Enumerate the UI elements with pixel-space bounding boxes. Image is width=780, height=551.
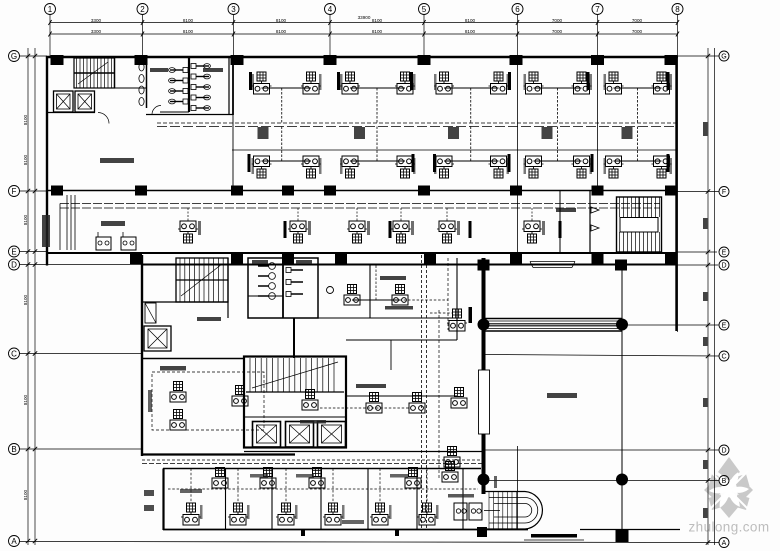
bottom unit label [295,505,298,519]
bottom band left wall [162,469,164,531]
svg-text:B: B [11,445,16,454]
fan coil corridor [437,221,457,243]
fan coil row2 bay2 left [340,156,360,178]
fan coil band upper [309,468,325,489]
small duct shaft [145,303,156,323]
wall left of stair S3 [589,190,591,253]
lobby west wall window [479,370,490,434]
svg-text:8100: 8100 [276,29,287,34]
svg-text:3: 3 [231,5,236,14]
fan coil band upper [405,468,421,489]
door stub bottom band 1 [301,529,305,536]
urinals [139,63,144,71]
bay4 label block [542,127,553,139]
svg-text:1: 1 [48,5,53,14]
row1 bay2 connection [350,87,405,89]
bay1 unit labels [252,74,255,90]
corridor branch [400,208,402,221]
bay3 label block [448,127,459,139]
row axis E right [719,320,729,330]
fan coil B1 [302,390,318,411]
riser dashed vertical main [421,255,423,528]
lobby text [547,393,577,398]
fan coil bottom room [228,503,248,525]
riser equipment block [42,215,50,247]
lobby column SW [478,474,490,486]
svg-text:zhulong.com: zhulong.com [689,520,770,535]
svg-text:8100: 8100 [23,294,28,305]
corridor branch [187,208,189,221]
spiral stair label [494,476,497,488]
core lobby wall [244,416,346,418]
B row labels [356,384,386,388]
elevator E6 [318,422,346,448]
room wall y318 [318,317,457,319]
row2 bay2 connection [350,160,405,162]
fan coil row2 bay5 left [604,156,624,178]
fan coil B2 [366,393,382,414]
svg-text:7000: 7000 [552,29,563,34]
bottom unit label [389,505,392,519]
svg-text:7000: 7000 [632,29,643,34]
row1 bay3 connection [444,87,499,89]
svg-text:6: 6 [515,5,520,14]
corridor pipes [60,203,660,205]
spiral stair [484,492,542,530]
fan coil row1 bay1 left [252,72,272,94]
wall y396 [346,395,457,397]
svg-text:8100: 8100 [276,18,287,23]
riser dashed vertical 2 [447,258,449,330]
stair S1 [74,58,115,88]
duct bar right strip [469,307,473,323]
black duct bars rows 1-2 [249,72,252,90]
fan coil row1 bay2 left [340,72,360,94]
svg-text:3300: 3300 [91,18,102,23]
grid axis 4 [325,4,336,15]
row axis B right [719,476,729,486]
svg-text:8100: 8100 [183,29,194,34]
fan coil row2 bay3 right [489,156,509,178]
svg-text:E: E [722,323,727,330]
svg-text:G: G [11,52,17,61]
fan coil row1 bay1 right [301,72,321,94]
left dimension lines [27,48,29,545]
toilet labels [150,68,168,72]
svg-text:3300: 3300 [91,29,102,34]
fan coil M2 [170,410,186,431]
corner AHU pair [454,503,467,520]
fan coil corridor [288,221,308,243]
riser dashed vertical 3 [438,310,440,480]
svg-text:A: A [11,537,17,546]
fan coil R4 [442,462,458,483]
bottom unit label [200,505,203,519]
svg-text:E: E [11,247,16,256]
corridor unit label [542,221,545,235]
band horizontal pipe dashed [168,488,478,490]
corridor branch [356,208,358,221]
svg-text:F: F [722,189,726,196]
wall row D [142,263,677,265]
wall x457 [456,258,458,340]
grid axis 7 [592,4,603,15]
bottom room drop dashed [190,469,192,504]
top dimension lines [50,22,678,24]
bottom room drop dashed [285,469,287,504]
row axis D right [719,445,729,455]
fan coil bottom room [417,503,437,525]
branch dashed B-row [320,407,410,409]
branch dashed roomA [365,299,448,301]
double door S3 [591,207,599,213]
AHU box [96,237,111,250]
svg-text:8100: 8100 [23,394,28,405]
fan coil row2 bay1 left [252,156,272,178]
svg-text:E: E [722,250,727,257]
wall row F [47,190,677,192]
reception text [100,158,134,163]
svg-text:F: F [12,187,17,196]
corridor2 dashed [142,459,482,461]
bottom room drop dashed [237,469,239,504]
wall below elevators [47,112,95,114]
small circle fixture [327,287,334,294]
fan coil row1 bay4 right [572,72,592,94]
fan coil M1 [170,382,186,403]
machine room bottom wall [141,453,295,455]
fan coil row2 bay3 left [434,156,454,178]
fan coil room A1 [344,285,360,306]
fan coil row1 bay2 right [395,72,415,94]
svg-text:D: D [721,448,726,455]
small room wall S3 [559,190,561,253]
grid axis 6 [512,4,523,15]
corridor unit label [411,221,414,235]
fan coil bottom room [370,503,390,525]
corridor unit label [457,221,460,235]
toilet T1 walls [146,56,148,108]
row axis F left [9,186,20,197]
fan coil row2 bay4 left [524,156,544,178]
row axis E left [9,246,20,257]
bay3 unit labels [434,74,437,90]
lobby stair wall segment [517,446,519,530]
svg-text:8100: 8100 [372,18,383,23]
toilet T2 labels [252,260,268,264]
lobby column SE [616,474,628,486]
wall x228 [227,258,229,318]
row1 bay4 connection [534,87,582,89]
svg-text:7: 7 [595,5,600,14]
corridor unit label [367,221,370,235]
fan coil bottom room [181,503,201,525]
door stub bottom band 2 [395,529,399,536]
elevator E3 [144,326,171,351]
machine room text2 [148,390,152,412]
column bottom 2 [616,530,629,542]
toilet fixtures [183,68,188,73]
svg-text:8100: 8100 [372,29,383,34]
svg-text:33900: 33900 [358,15,371,20]
top dimension ticks [48,20,51,25]
partition wall grid 6 [517,56,519,253]
corridor branch [446,208,448,221]
row axis G right [719,51,729,61]
columns row E [130,252,142,264]
fan coil row1 bay3 left [434,72,454,94]
grid axis 1 [45,4,56,15]
lobby beam [484,318,622,320]
svg-text:2: 2 [140,5,145,14]
fan coil M3 [232,386,248,407]
branch dashed R1 [430,312,452,314]
stair core walls [244,357,346,448]
right dimension lines [707,48,709,545]
svg-text:A: A [722,540,727,547]
bay5 unit labels [604,74,607,90]
bottom unit label [436,505,439,519]
column bottom 1 [477,527,487,537]
lobby column NE [616,319,628,331]
left riser pipes [66,195,68,250]
fan coil corridor [347,221,367,243]
corridor room label [556,208,576,212]
svg-text:8100: 8100 [183,18,194,23]
wall x391 [390,340,392,370]
row lines right [678,55,720,57]
elevator E4 [253,422,281,448]
fan coil row2 bay5 right [652,156,672,178]
room A label [380,276,406,280]
fan coil row1 bay5 left [604,72,624,94]
wall below toilet right [232,115,234,190]
lobby north door canopy [530,261,575,263]
corridor machine room text [101,221,125,226]
row2 bay4 connection [534,160,582,162]
svg-text:8100: 8100 [23,154,28,165]
room label above elevators [197,317,221,321]
row2 bay3 connection [444,160,499,162]
row axis C right [719,351,729,361]
corridor branch [297,208,299,221]
fan coil bottom room [323,503,343,525]
fan coil row2 bay4 right [572,156,592,178]
outer wall top [46,56,678,58]
row axis C left [9,348,20,359]
grid axis 2 [137,4,148,15]
corridor unit label [308,221,311,235]
fan coil R2 [451,388,467,409]
bay4 unit labels [524,74,527,90]
bay1 label block [258,127,269,139]
grid 8 wall edge continuation [677,56,679,332]
svg-text:G: G [721,54,726,61]
machine room text [160,366,186,371]
lobby west wall upper [482,258,486,370]
svg-text:D: D [721,263,726,270]
wall y358 [142,358,244,360]
bottom room drop dashed [379,469,381,504]
lower wing left wall [141,255,143,456]
fan coil corridor [391,221,411,243]
wall x294 [293,318,295,358]
svg-text:7000: 7000 [632,18,643,23]
fan coil row1 bay3 right [489,72,509,94]
svg-text:5: 5 [422,5,427,14]
svg-text:8100: 8100 [23,114,28,125]
bottom unit label [247,505,250,519]
row axis D right [719,260,729,270]
row axis F right [719,187,729,197]
row axis A left [9,536,20,547]
bay2 label block [354,127,365,139]
bottom outer wall [163,529,528,531]
toilet door arc [152,106,161,115]
watermark logo pinwheel [704,457,753,518]
corridor bars [284,221,287,238]
wall y340 segment [346,339,457,341]
svg-text:7000: 7000 [552,18,563,23]
glazing line row2 [232,149,677,151]
fan coil row1 bay5 right [652,72,672,94]
toilet T2 fixtures [269,263,276,270]
bay5 label block [622,127,633,139]
grid axis 3 [228,4,239,15]
column D-wall west [478,260,490,271]
bottom outer wall right part [580,529,680,531]
bottom band top wall [163,468,481,470]
lobby west wall lower [482,434,486,494]
row axis B left [9,444,20,455]
lobby column NW [478,319,490,331]
grid axis 5 [419,4,430,15]
band labels [180,489,202,493]
room wall x370 [369,264,371,318]
toilet T2 walls [248,258,318,318]
entrance mat [531,534,577,538]
stair S4 [249,358,251,392]
svg-text:8: 8 [675,5,680,14]
fan coil corridor [522,221,542,243]
svg-text:8100: 8100 [465,29,476,34]
row axis A right [719,538,729,548]
svg-text:C: C [721,354,726,361]
svg-text:8100: 8100 [23,489,28,500]
row2 bay5 connection [614,160,662,162]
room A connection [352,299,400,301]
fan coil row2 bay2 right [395,156,415,178]
left small equipment [144,490,154,496]
grid axis 8 [672,4,683,15]
corner AHU label [448,494,474,498]
wall row E [47,252,677,254]
svg-text:B: B [722,478,727,485]
svg-text:D: D [11,260,17,269]
fan coil band upper [212,468,228,489]
svg-text:C: C [11,349,17,358]
reception door arc [98,113,109,124]
column D-wall east [615,260,627,271]
fan coil R1 [447,309,467,331]
columns row G [51,55,64,65]
fan coil room A2 [392,285,408,306]
elevator E1 [54,91,74,112]
bottom unit label [342,505,345,519]
row2 bay1 connection [262,160,312,162]
row1 bay5 connection [614,87,662,89]
bay2 unit labels [340,74,343,90]
row lines left [20,55,48,57]
corridor duct dashed [157,122,676,124]
stair S3 [617,197,662,252]
corridor branch [531,208,533,221]
columns row F [51,186,63,196]
wall y452 [244,451,484,453]
fan coil R3 [444,447,460,468]
bottom room drop dashed [332,469,334,504]
elevator E2 [75,91,95,112]
machine room loop dashed [152,372,264,430]
fan coil bottom room [276,503,296,525]
right dimension ticks [703,122,708,136]
fan coil corridor [178,221,198,243]
fan coil band upper [260,468,276,489]
outer wall left [46,56,48,266]
row1 bay1 connection [262,87,312,89]
svg-text:4: 4 [328,5,333,14]
bottom room drop dashed [426,469,428,504]
lobby east line [621,265,623,530]
fan coil B3 [409,393,425,414]
AHU box [121,237,136,250]
corridor unit label [198,221,201,235]
row axis E right [719,247,729,257]
stair S2 [176,258,228,302]
partition wall grid 7 [597,56,599,190]
outer wall right [675,56,677,331]
svg-text:8100: 8100 [465,18,476,23]
row axis G left [9,51,20,62]
elevator E5 [286,422,314,448]
fan coil row2 bay1 right [301,156,321,178]
wall below stair S2 [142,301,228,303]
row axis D left [9,259,20,270]
fan coil row1 bay4 left [524,72,544,94]
bottom band dividers [225,469,227,530]
svg-text:8100: 8100 [23,214,28,225]
